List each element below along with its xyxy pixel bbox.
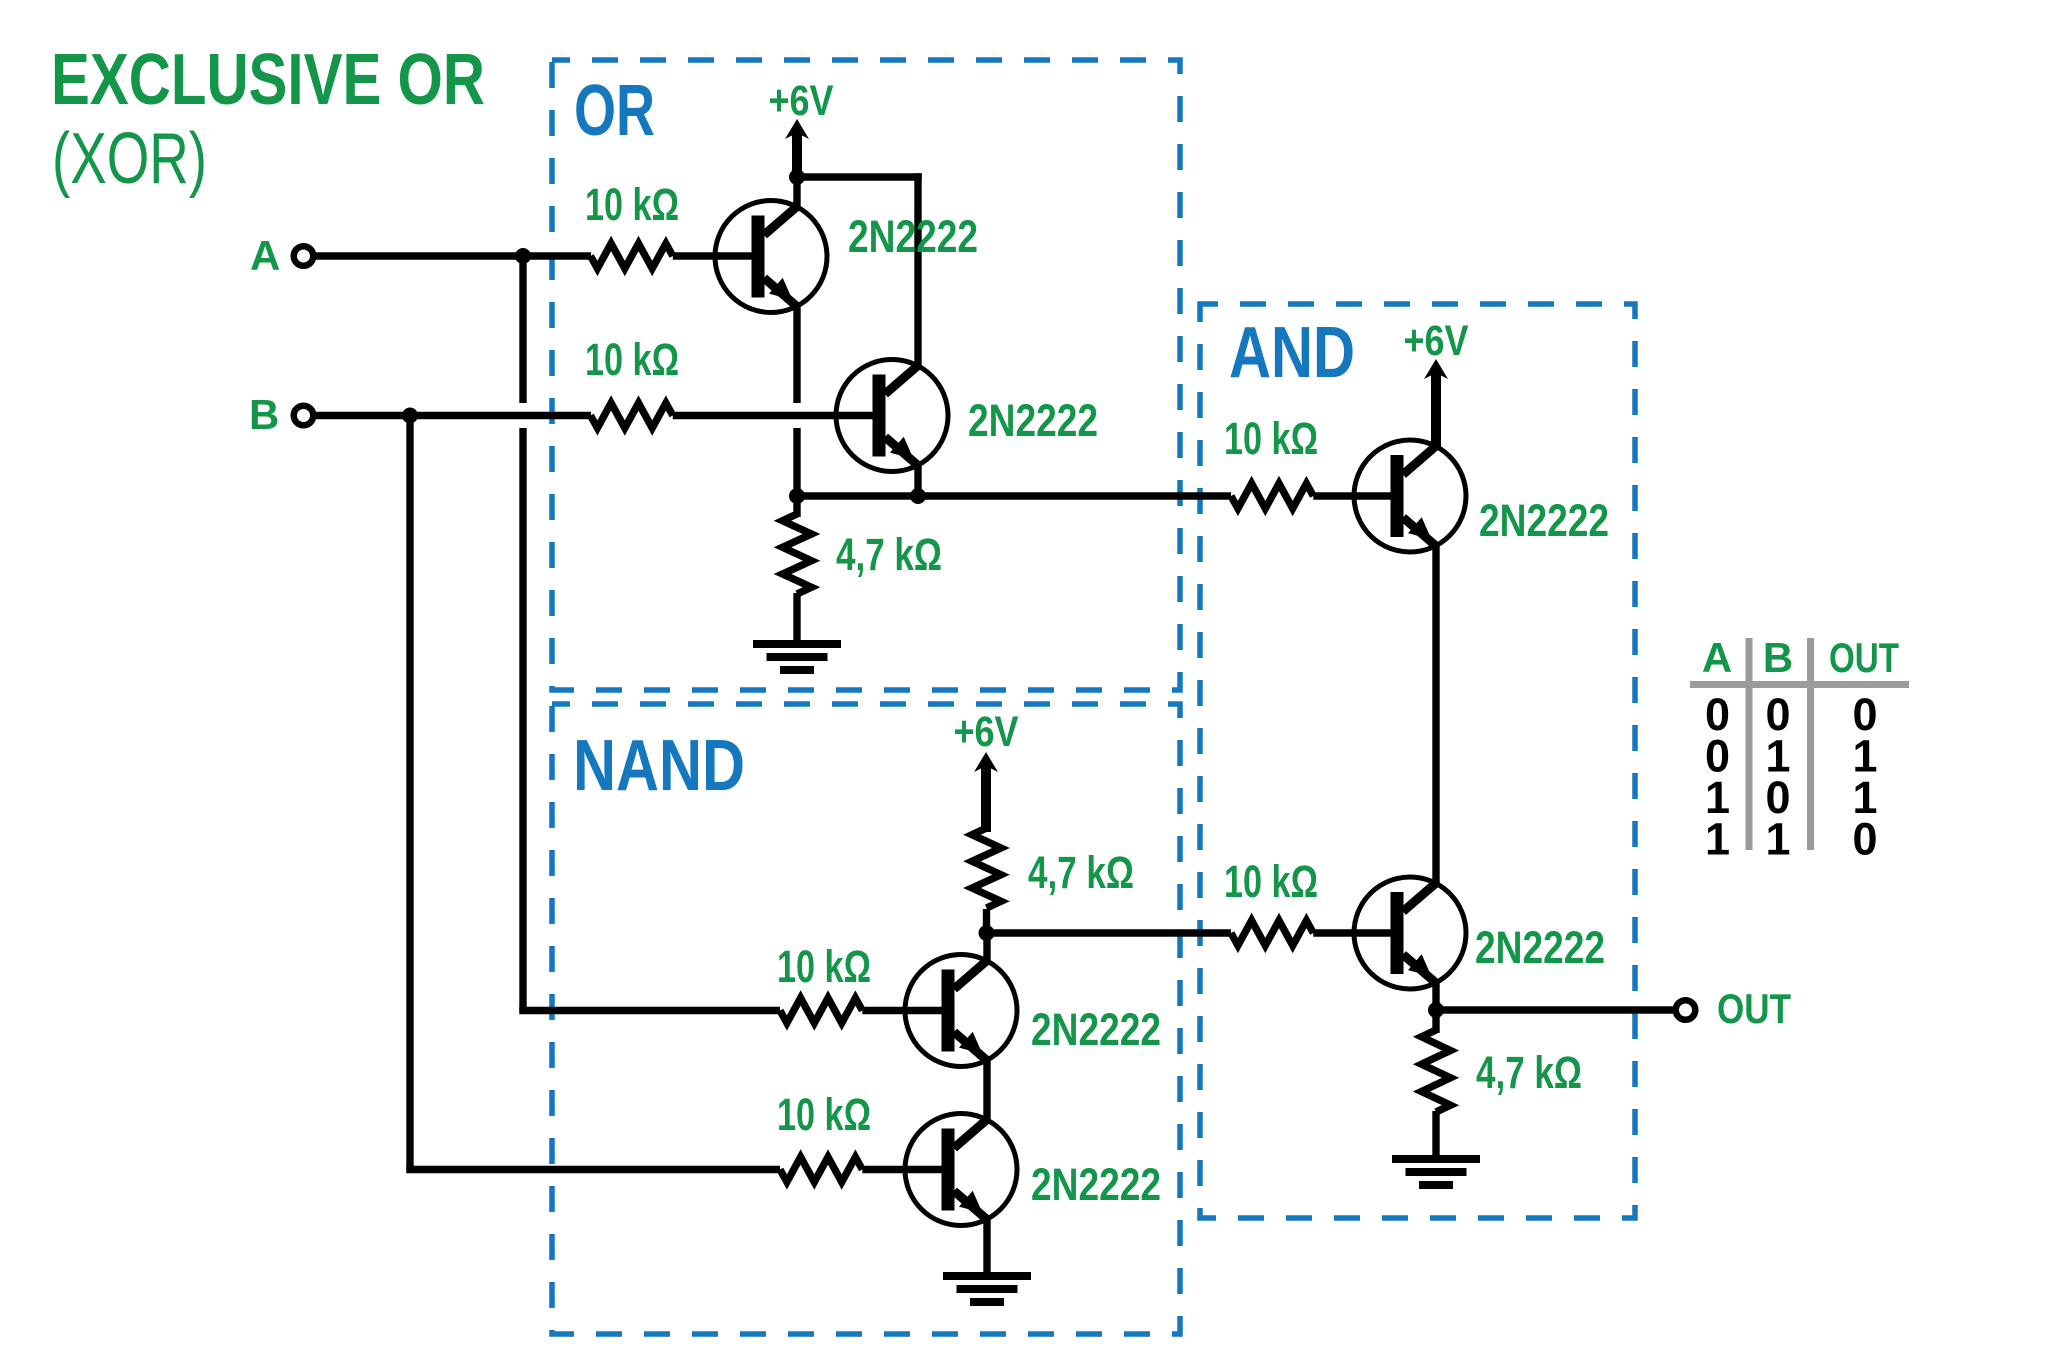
svg-text:A: A bbox=[250, 232, 280, 279]
power +6V arrow (NAND) bbox=[974, 752, 998, 832]
wire A branch vertical upper bbox=[519, 256, 526, 403]
resistor R5 10 kΩ (NAND input A) bbox=[780, 998, 862, 1023]
transistor Q6 (2N2222 NPN) bbox=[1354, 877, 1466, 989]
svg-text:OR: OR bbox=[574, 71, 655, 151]
svg-text:10 kΩ: 10 kΩ bbox=[1224, 413, 1318, 464]
svg-text:EXCLUSIVE OR: EXCLUSIVE OR bbox=[51, 40, 485, 120]
wire A branch to NAND R5 bbox=[519, 1007, 780, 1014]
wire Q3 emitter to Q6 collector bbox=[1432, 544, 1439, 886]
resistor R3 4,7 kΩ (OR pulldown) bbox=[783, 514, 812, 594]
wire OUT row bbox=[1436, 1006, 1673, 1013]
wire Q5 emitter to ground bbox=[983, 1218, 990, 1274]
ground (AND) bbox=[1392, 1155, 1480, 1189]
transistor Q2 (2N2222 NPN) bbox=[836, 360, 948, 472]
svg-text:1: 1 bbox=[1765, 814, 1790, 865]
wire OUT node to R9 bbox=[1432, 1010, 1439, 1033]
ground (NAND) bbox=[943, 1272, 1031, 1306]
node A branch junction bbox=[515, 248, 531, 264]
power +6V arrow (OR) bbox=[785, 119, 809, 177]
resistor R9 4,7 kΩ (AND pulldown) bbox=[1422, 1030, 1451, 1112]
svg-text:B: B bbox=[1763, 634, 1793, 681]
transistor Q1 (2N2222 NPN) bbox=[715, 201, 827, 313]
svg-text:0: 0 bbox=[1852, 814, 1877, 865]
svg-text:A: A bbox=[1702, 634, 1732, 681]
wire R7 to Q3 base bbox=[1313, 492, 1392, 499]
wire R8 to Q6 base bbox=[1313, 929, 1392, 936]
svg-text:OUT: OUT bbox=[1829, 634, 1899, 681]
svg-text:NAND: NAND bbox=[573, 726, 745, 806]
power +6V arrow (AND) bbox=[1424, 359, 1448, 448]
svg-text:B: B bbox=[249, 391, 279, 438]
resistor R1 10 kΩ (OR input A) bbox=[591, 244, 673, 269]
truth table header rule bbox=[1690, 681, 1909, 688]
terminal output OUT (open circle) bbox=[1676, 1000, 1696, 1020]
node OR output node b bbox=[910, 488, 926, 504]
transistor Q4 (2N2222 NPN) bbox=[905, 955, 1017, 1067]
OR gate dashed box bbox=[552, 60, 1180, 690]
svg-text:OUT: OUT bbox=[1717, 985, 1791, 1032]
svg-text:4,7 kΩ: 4,7 kΩ bbox=[836, 529, 942, 580]
svg-text:10 kΩ: 10 kΩ bbox=[777, 1089, 871, 1140]
svg-text:10 kΩ: 10 kΩ bbox=[1224, 856, 1318, 907]
svg-text:(XOR): (XOR) bbox=[52, 119, 207, 199]
terminal input A (open circle) bbox=[294, 246, 314, 266]
wire R3 to ground bbox=[793, 593, 800, 642]
svg-text:2N2222: 2N2222 bbox=[1031, 1159, 1161, 1210]
transistor Q5 (2N2222 NPN) bbox=[905, 1114, 1017, 1226]
node OR power node bbox=[789, 169, 805, 185]
svg-text:10 kΩ: 10 kΩ bbox=[585, 334, 679, 385]
svg-text:1: 1 bbox=[1705, 814, 1730, 865]
svg-text:10 kΩ: 10 kΩ bbox=[585, 179, 679, 230]
terminal input B (open circle) bbox=[294, 406, 314, 426]
resistor R7 10 kΩ (AND upper base) bbox=[1231, 484, 1313, 509]
resistor R8 10 kΩ (AND lower base) bbox=[1231, 921, 1313, 946]
wire Q6 emitter to OUT node bbox=[1432, 981, 1439, 1012]
svg-text:4,7 kΩ: 4,7 kΩ bbox=[1028, 847, 1134, 898]
ground (OR) bbox=[753, 640, 841, 674]
wire B input to resistor bbox=[313, 412, 591, 419]
svg-text:2N2222: 2N2222 bbox=[968, 395, 1098, 446]
wire A branch vertical lower bbox=[519, 428, 526, 1011]
svg-text:2N2222: 2N2222 bbox=[1031, 1004, 1161, 1055]
NAND gate dashed box bbox=[552, 704, 1180, 1334]
resistor R2 10 kΩ (OR input B) bbox=[591, 403, 673, 428]
node OR output node a bbox=[789, 488, 805, 504]
AND gate dashed box bbox=[1200, 304, 1635, 1218]
node B branch junction bbox=[402, 408, 418, 424]
wire R4 to NAND node bbox=[983, 909, 990, 937]
svg-text:+6V: +6V bbox=[769, 77, 834, 125]
wire OR power to Q1 collector bbox=[793, 172, 800, 208]
node NAND output node bbox=[979, 925, 995, 941]
wire OR output row bbox=[797, 492, 1231, 499]
wire Q2 collector riser bbox=[914, 173, 921, 367]
wire Q4 emitter to Q5 collector bbox=[983, 1059, 990, 1121]
wire R2 to Q2 base bbox=[673, 412, 874, 419]
wire R9 to ground bbox=[1432, 1111, 1439, 1157]
svg-text:2N2222: 2N2222 bbox=[1479, 495, 1609, 546]
wire NAND output row bbox=[987, 929, 1232, 936]
wire Q1 emitter riser lower (crossover gap at B wire) bbox=[793, 428, 800, 496]
transistor Q3 (2N2222 NPN) bbox=[1354, 440, 1466, 552]
resistor R4 4,7 kΩ (NAND pullup) bbox=[972, 828, 1001, 908]
wire B branch vertical bbox=[406, 416, 413, 1170]
truth table column rule 1 bbox=[1746, 638, 1753, 850]
svg-text:2N2222: 2N2222 bbox=[848, 211, 978, 262]
resistor R6 10 kΩ (NAND input B) bbox=[780, 1157, 862, 1182]
wire NAND node to Q4 collector bbox=[983, 933, 990, 963]
wire R5 to Q4 base bbox=[862, 1007, 943, 1014]
wire OR node to R3 bbox=[793, 496, 800, 517]
svg-text:+6V: +6V bbox=[954, 708, 1019, 756]
svg-text:2N2222: 2N2222 bbox=[1475, 922, 1605, 973]
wire R1 to Q1 base bbox=[673, 252, 753, 259]
wire Q2 emitter riser bbox=[914, 464, 921, 496]
wire Q1 emitter riser upper bbox=[793, 305, 800, 403]
svg-text:AND: AND bbox=[1229, 313, 1355, 393]
wire B branch to NAND R6 bbox=[406, 1166, 780, 1173]
svg-text:+6V: +6V bbox=[1404, 317, 1469, 365]
svg-text:4,7 kΩ: 4,7 kΩ bbox=[1476, 1047, 1582, 1098]
wire A input to resistor bbox=[313, 252, 591, 259]
wire R6 to Q5 base bbox=[862, 1166, 943, 1173]
wire OR top link horizontal bbox=[797, 173, 922, 180]
truth table column rule 2 bbox=[1807, 638, 1814, 850]
svg-text:10 kΩ: 10 kΩ bbox=[777, 941, 871, 992]
node OUT node bbox=[1428, 1002, 1444, 1018]
